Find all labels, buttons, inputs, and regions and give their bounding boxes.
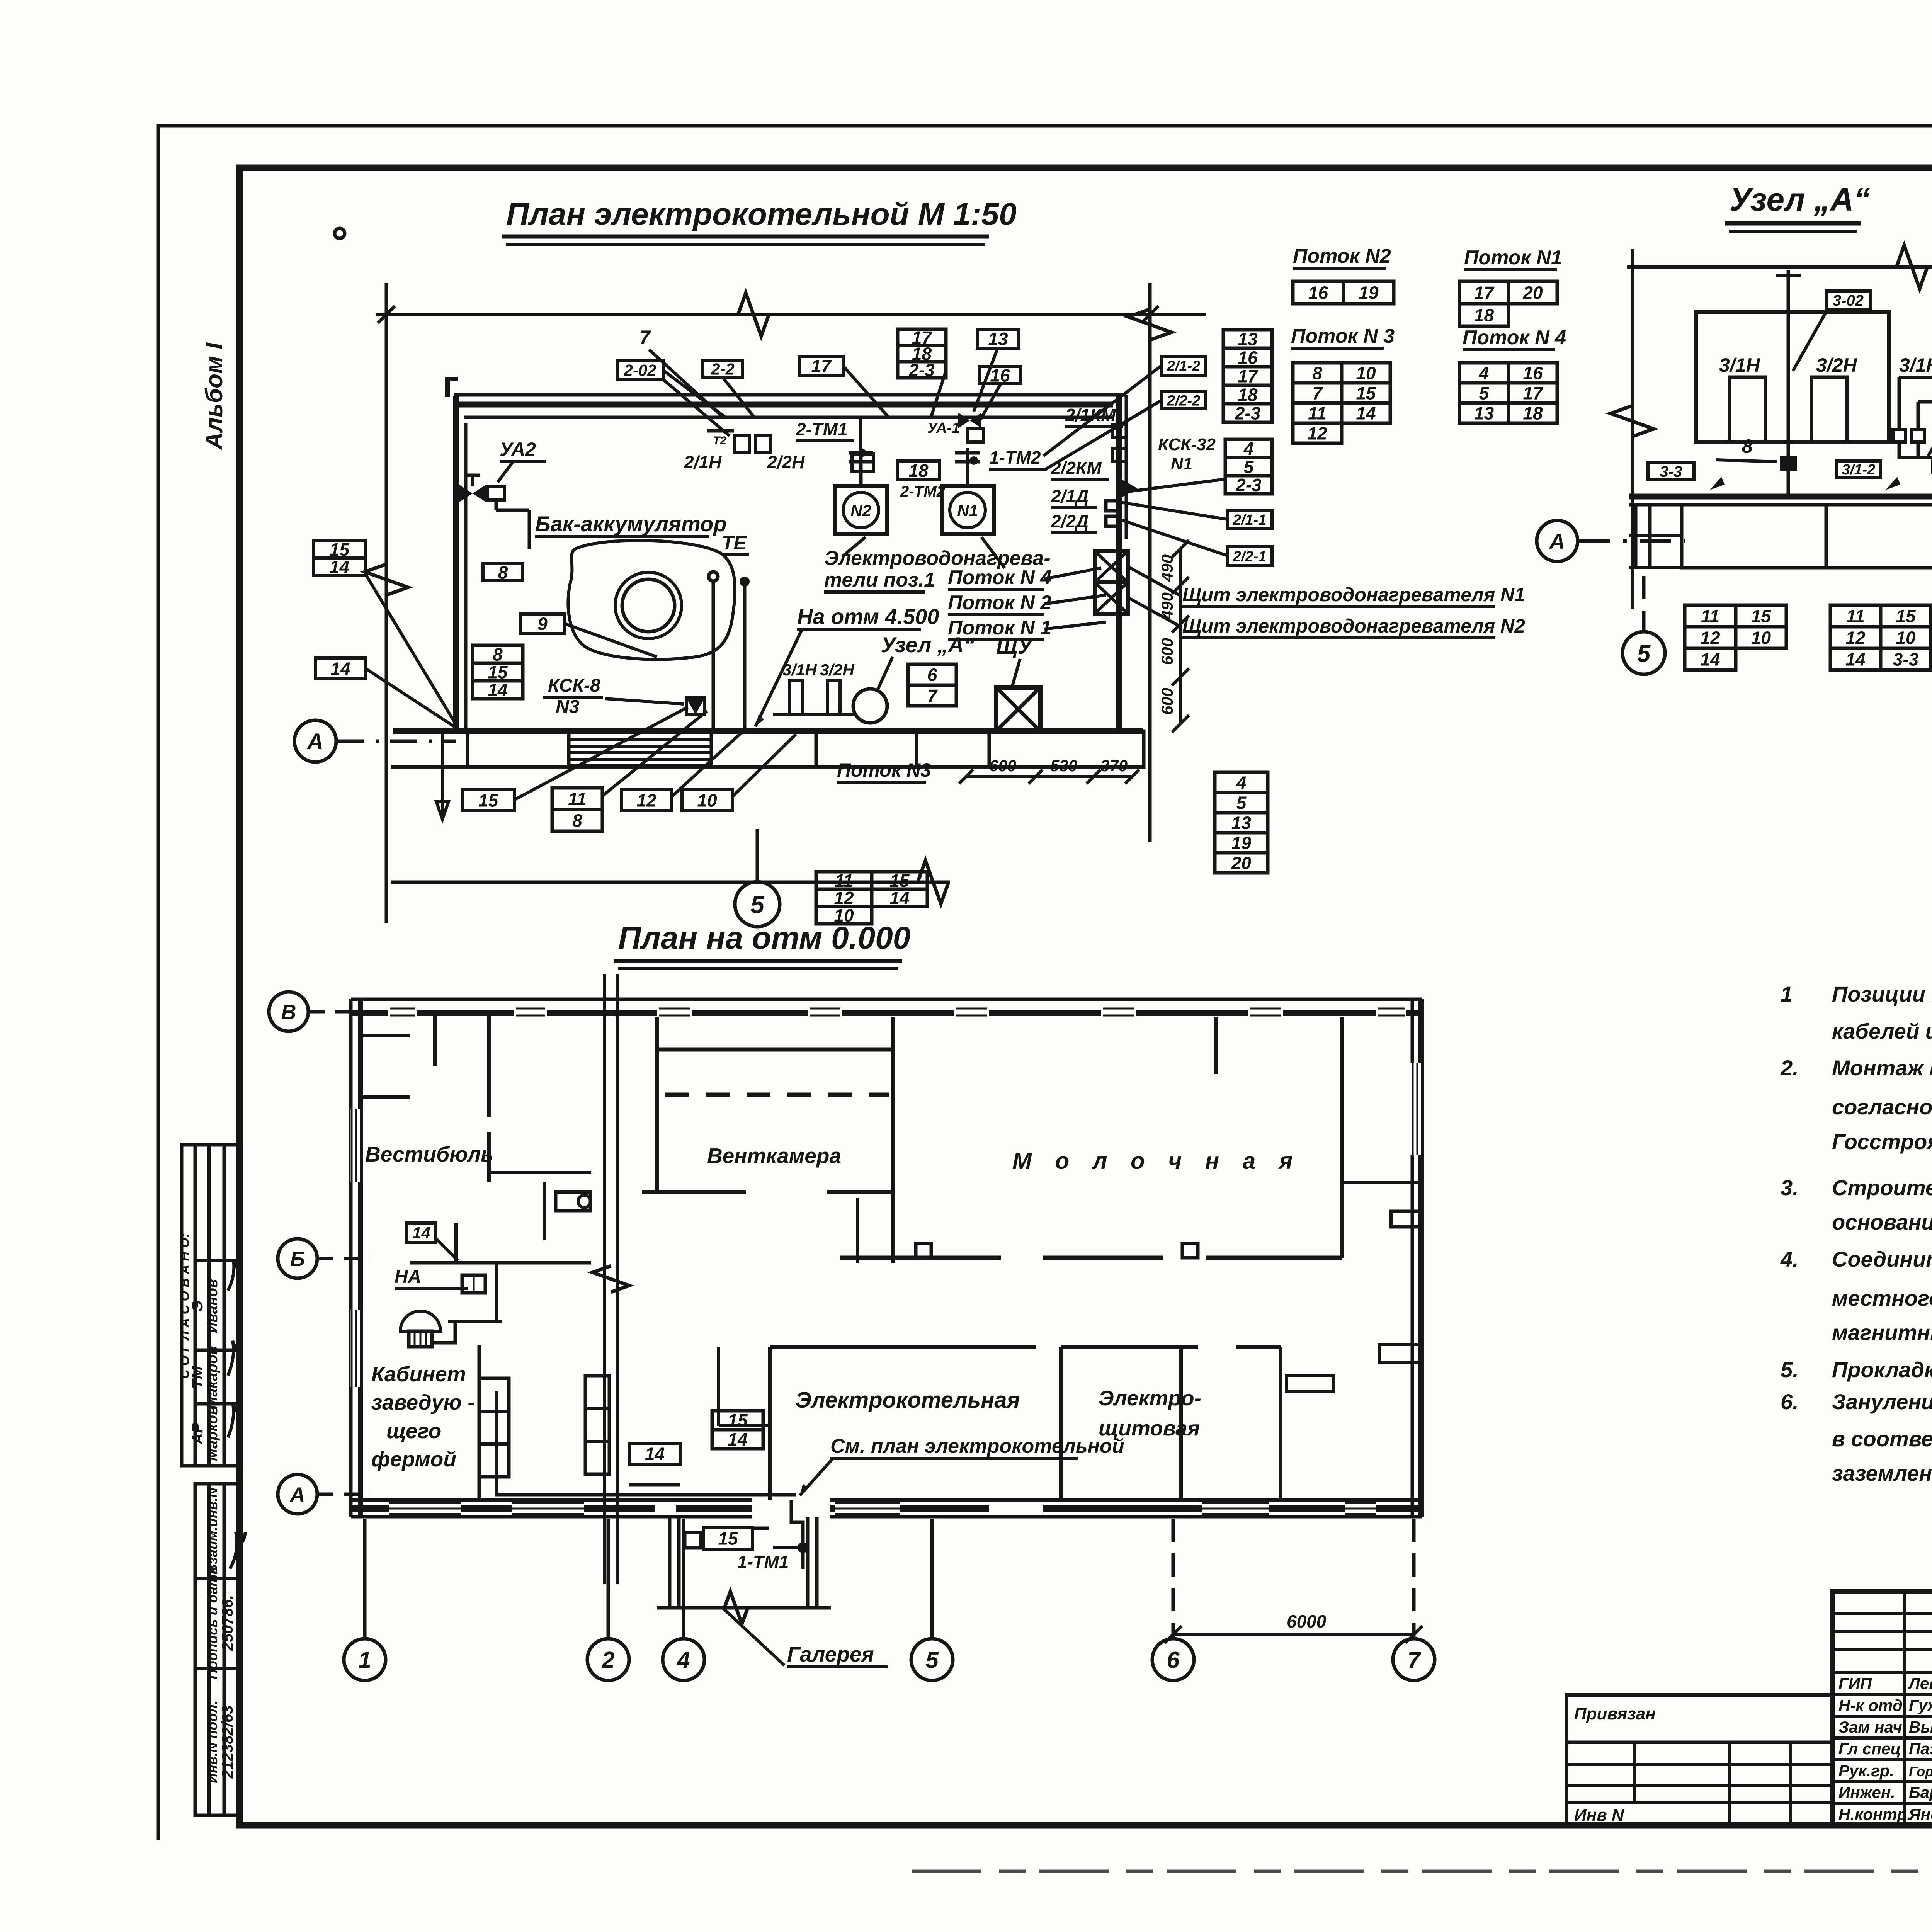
svg-text:18: 18 <box>908 461 929 481</box>
svg-text:Паз: Паз <box>1909 1740 1932 1758</box>
leader 11/8 <box>602 711 707 796</box>
table potok4 <box>1459 363 1557 423</box>
leader heater2 <box>981 537 1005 568</box>
svg-text:УА2: УА2 <box>500 439 536 460</box>
svg-text:Н.контр.: Н.контр. <box>1838 1805 1912 1823</box>
svg-text:Строительная и технологическ: Строительная и технологическая часть вып… <box>1832 1175 1932 1200</box>
svg-text:20: 20 <box>1522 283 1543 303</box>
uzelA table mid <box>1830 605 1931 670</box>
svg-text:2-ТМ1: 2-ТМ1 <box>796 419 847 439</box>
label na otm <box>797 604 939 629</box>
top wall thin <box>351 998 1422 1001</box>
label 2-TM1 <box>796 419 854 441</box>
svg-text:7: 7 <box>1312 383 1323 403</box>
svg-text:Привязан: Привязан <box>1574 1704 1656 1723</box>
header potok4 <box>1463 327 1566 350</box>
svg-text:Поток N 3: Поток N 3 <box>1291 325 1395 347</box>
title uzel A <box>1725 181 1870 231</box>
svg-text:N1: N1 <box>957 502 978 520</box>
svg-text:8: 8 <box>1312 363 1322 383</box>
leader sm plan <box>800 1459 833 1495</box>
svg-text:15: 15 <box>1896 606 1916 626</box>
svg-text:15: 15 <box>1356 383 1376 403</box>
label potok2 <box>948 592 1051 615</box>
leader 17/18 <box>931 371 946 417</box>
svg-text:16: 16 <box>1238 348 1258 368</box>
svg-text:Госстроя СССР.: Госстроя СССР. <box>1832 1129 1932 1154</box>
svg-text:2-02: 2-02 <box>623 361 656 379</box>
svg-text:1-ТМ2: 1-ТМ2 <box>989 447 1041 468</box>
svg-text:3/2Н: 3/2Н <box>1816 354 1857 376</box>
svg-text:18: 18 <box>1523 403 1543 423</box>
svg-text:3/1Н: 3/1Н <box>782 661 817 679</box>
leader 15b <box>514 707 688 800</box>
uzelA 3/1KM <box>1899 354 1932 377</box>
KSK8 symbol <box>686 698 705 714</box>
axis 5 <box>930 1519 934 1638</box>
svg-text:М о л о ч н а я: М о л о ч н а я <box>1012 1148 1301 1174</box>
label 2/2N <box>767 452 805 472</box>
grid circle 6 <box>1152 1639 1194 1680</box>
corridor dividers <box>468 731 711 767</box>
svg-text:16: 16 <box>1308 283 1328 303</box>
TE probe line <box>712 580 715 730</box>
svg-text:Э: Э <box>189 1300 206 1311</box>
svg-text:2-3: 2-3 <box>1235 475 1262 495</box>
label vestibule <box>365 1142 493 1166</box>
table potok2 <box>1293 281 1394 304</box>
left wall thin <box>349 999 353 1517</box>
table 8/15/14 <box>473 645 523 700</box>
box 2-02 <box>617 361 663 379</box>
uzelA floor band <box>1629 505 1932 568</box>
svg-text:Подпись и дата: Подпись и дата <box>204 1566 220 1679</box>
svg-text:А: А <box>1549 529 1565 553</box>
svg-text:17: 17 <box>1523 383 1544 403</box>
leader 8 <box>1716 460 1777 462</box>
box 2/1-1 <box>1227 510 1272 529</box>
bottom dim line <box>391 881 950 884</box>
label KSK32a <box>1158 435 1216 454</box>
svg-text:4: 4 <box>1243 439 1254 459</box>
svg-text:12: 12 <box>1700 628 1720 648</box>
svg-text:4: 4 <box>677 1647 690 1673</box>
svg-text:Поток N 2: Поток N 2 <box>948 592 1051 614</box>
svg-text:Вестибюль: Вестибюль <box>365 1142 493 1166</box>
svg-text:Прокладку электропроводок ос: Прокладку электропроводок осуществить ск… <box>1832 1357 1932 1382</box>
svg-text:АР: АР <box>189 1423 206 1445</box>
stamp table INV <box>195 1484 245 1815</box>
km boxes <box>1113 424 1127 437</box>
svg-text:11: 11 <box>1701 606 1719 626</box>
posts 3/1N 3/2N <box>773 661 855 714</box>
leader 7 <box>649 350 721 415</box>
heater rect 1 <box>1730 377 1765 442</box>
svg-text:14: 14 <box>1700 650 1720 670</box>
km line b <box>1917 402 1920 429</box>
svg-text:согласно строительным нормам: согласно строительным нормам и правилам … <box>1832 1095 1932 1119</box>
svg-text:15: 15 <box>478 791 499 811</box>
uzelA room <box>1696 312 1889 442</box>
grid circle 7 <box>1393 1639 1435 1680</box>
svg-text:2-2: 2-2 <box>711 360 735 378</box>
leader UA2 <box>498 461 514 482</box>
uzelA top line <box>1627 265 1932 269</box>
box 14 plan <box>629 1443 680 1464</box>
grid circle 2 <box>587 1639 629 1680</box>
pipe along left wall <box>464 423 468 730</box>
label 1-TM2 <box>989 447 1047 469</box>
top wall outer line <box>454 393 1126 397</box>
tank bak-akkumulator <box>568 540 735 659</box>
svg-text:7: 7 <box>927 686 938 706</box>
box 18 <box>898 461 939 481</box>
svg-text:14: 14 <box>889 888 909 908</box>
label kabinet3 <box>386 1419 441 1443</box>
label heaters 2 <box>824 569 935 592</box>
svg-text:15: 15 <box>1751 606 1772 626</box>
svg-text:14: 14 <box>728 1429 747 1449</box>
leader shield2 <box>1129 598 1179 626</box>
svg-text:3/1-2: 3/1-2 <box>1842 462 1876 478</box>
leader ksk8 <box>605 699 684 704</box>
leader a <box>663 379 730 436</box>
label 2/1N <box>684 452 722 472</box>
svg-text:На отм 4.500: На отм 4.500 <box>797 604 939 629</box>
svg-text:Электрокотельная: Электрокотельная <box>795 1388 1020 1413</box>
leader heater <box>842 537 866 556</box>
leader na otm <box>755 630 802 726</box>
label kabinet2 <box>371 1390 475 1414</box>
leader 14B <box>436 1238 458 1260</box>
svg-text:5: 5 <box>1244 457 1254 477</box>
label shield1 <box>1182 584 1525 607</box>
svg-text:14: 14 <box>412 1224 430 1242</box>
manifold valve <box>1931 459 1932 474</box>
svg-text:4: 4 <box>1479 363 1489 383</box>
grid circle B <box>278 1239 317 1278</box>
vestibule interior <box>410 1132 770 1500</box>
dims 600 530 370 <box>959 757 1139 784</box>
svg-text:Галерея: Галерея <box>787 1642 874 1666</box>
svg-text:17: 17 <box>1474 283 1495 303</box>
leader shield1 <box>1129 567 1179 595</box>
label potok3 plan <box>837 759 931 782</box>
grid circle A <box>294 720 336 762</box>
hood symbol <box>400 1311 455 1347</box>
svg-text:8: 8 <box>572 811 582 831</box>
grid circle 5 top plan <box>735 882 780 927</box>
small jb a <box>1893 429 1906 442</box>
table potok3 <box>1293 363 1390 444</box>
svg-text:19: 19 <box>1231 833 1252 853</box>
box 17 <box>799 356 843 376</box>
label 2/2KM <box>1051 458 1109 480</box>
svg-text:212382/63: 212382/63 <box>219 1705 236 1779</box>
svg-text:Т2: Т2 <box>713 434 726 447</box>
uzelA label 8 <box>1742 435 1753 457</box>
ShchU box <box>996 687 1040 731</box>
bottom wall <box>393 728 1143 734</box>
svg-text:3-02: 3-02 <box>1833 292 1864 309</box>
left wall <box>453 396 459 731</box>
svg-text:НА: НА <box>395 1267 421 1287</box>
svg-text:заведую -: заведую - <box>371 1390 475 1414</box>
leader b <box>843 366 889 417</box>
box 3/1-2 <box>1837 461 1881 478</box>
tm1 device <box>852 418 874 472</box>
box 15 left <box>313 539 366 560</box>
svg-text:Н-к отд: Н-к отд <box>1838 1696 1903 1714</box>
svg-text:6: 6 <box>1167 1647 1180 1673</box>
svg-text:2: 2 <box>601 1647 614 1673</box>
svg-text:2-ТМ2: 2-ТМ2 <box>900 483 945 500</box>
header potok1 <box>1464 247 1562 270</box>
svg-text:12: 12 <box>636 791 656 811</box>
top wall inner thick <box>454 402 1113 408</box>
right wall outer <box>1125 395 1128 539</box>
notes block <box>1780 982 1932 1485</box>
svg-text:Поток N2: Поток N2 <box>1293 245 1391 267</box>
leader p2 <box>1044 595 1106 604</box>
svg-text:250786.: 250786. <box>219 1595 236 1651</box>
label kabinet4 <box>371 1447 456 1471</box>
leader 12 <box>672 732 742 797</box>
label NA <box>395 1267 468 1288</box>
label sm plan <box>830 1435 1124 1458</box>
svg-text:13: 13 <box>1238 329 1258 349</box>
svg-text:10: 10 <box>1356 363 1376 383</box>
cable run <box>497 1391 803 1569</box>
km line c <box>1918 400 1932 404</box>
leader to circle 5 <box>756 829 759 881</box>
stack 13..2-3 <box>1223 329 1272 423</box>
dim chain 490/600 <box>1158 540 1189 732</box>
svg-text:2-3: 2-3 <box>1235 403 1261 423</box>
axis A dash <box>337 740 456 743</box>
svg-text:16: 16 <box>990 366 1010 386</box>
section line a <box>603 974 606 1584</box>
svg-text:Взаим.инв.N: Взаим.инв.N <box>204 1487 220 1574</box>
grid circle 5 <box>911 1639 953 1680</box>
svg-text:Монтаж приборов и средств: Монтаж приборов и средств автоматизации … <box>1832 1056 1932 1080</box>
svg-text:тели поз.1: тели поз.1 <box>824 569 935 591</box>
svg-text:5: 5 <box>925 1647 939 1673</box>
svg-text:490: 490 <box>1158 592 1176 620</box>
svg-text:5: 5 <box>1479 383 1490 403</box>
svg-text:13: 13 <box>988 329 1008 349</box>
heater N1 <box>942 448 994 534</box>
svg-text:17: 17 <box>1238 366 1259 386</box>
svg-text:Узел „А“: Узел „А“ <box>881 633 975 657</box>
axis B <box>318 1257 371 1260</box>
box 3-02 <box>1826 291 1870 309</box>
box 14 left <box>313 557 366 577</box>
svg-text:ЩУ: ЩУ <box>996 634 1034 658</box>
box 15 bottom <box>462 790 514 811</box>
leader p1 <box>1044 622 1106 629</box>
uzelA circle 5 <box>1622 632 1665 674</box>
svg-text:ТМ: ТМ <box>189 1366 206 1389</box>
svg-text:9: 9 <box>537 614 548 634</box>
svg-text:Гужва: Гужва <box>1909 1696 1932 1714</box>
gallery <box>657 1517 831 1608</box>
svg-text:ГИП: ГИП <box>1838 1674 1872 1692</box>
down arrow <box>436 731 449 819</box>
svg-text:14: 14 <box>488 680 507 700</box>
dimline <box>1179 549 1182 724</box>
svg-text:20: 20 <box>1231 853 1252 873</box>
svg-text:Зануление приборов и средст: Зануление приборов и средств автоматизац… <box>1832 1389 1932 1414</box>
section line b <box>616 974 619 1584</box>
svg-text:Венткамера: Венткамера <box>707 1144 841 1168</box>
uzelA floor thick <box>1629 494 1932 500</box>
header potok3 <box>1291 325 1395 348</box>
box 2/2-2 <box>1162 392 1206 409</box>
svg-text:3/2Н: 3/2Н <box>820 661 855 679</box>
bottom wall <box>351 1500 1422 1517</box>
probe line 2 <box>743 584 747 730</box>
leader 9 <box>565 624 657 657</box>
svg-text:2/2-2: 2/2-2 <box>1167 393 1201 409</box>
label KSK8b <box>556 697 580 717</box>
uzelA left line <box>1631 249 1634 609</box>
svg-text:магнитные пускатели на отм.: магнитные пускатели на отм. 1,5м <box>1832 1320 1932 1345</box>
label 2/1KM <box>1065 405 1123 427</box>
svg-text:щего: щего <box>386 1419 441 1443</box>
svg-text:17: 17 <box>811 356 832 376</box>
box 2/1-2 <box>1162 356 1206 375</box>
leader circle5 <box>1642 576 1646 631</box>
svg-text:1: 1 <box>1781 982 1793 1006</box>
right corridor box <box>989 731 1144 767</box>
stamp table SOGLASOVANO <box>177 1145 241 1466</box>
leader 15/14 <box>366 574 456 724</box>
leader galereya <box>723 1608 784 1665</box>
right grid line <box>1148 283 1152 842</box>
label KSK8 <box>548 675 600 696</box>
svg-text:Кабинет: Кабинет <box>371 1362 466 1386</box>
uzelA table left <box>1685 605 1786 670</box>
label elektrokotelnaya <box>795 1388 1020 1413</box>
svg-text:5: 5 <box>750 891 765 918</box>
left wall stub top <box>445 377 458 381</box>
svg-text:600: 600 <box>1158 688 1176 715</box>
label UA2 <box>500 439 546 461</box>
leader 3-02 <box>1793 309 1828 371</box>
svg-text:3/1КМ: 3/1КМ <box>1899 354 1932 376</box>
svg-text:4.: 4. <box>1780 1247 1799 1271</box>
box 14 left2 <box>315 658 366 679</box>
right wall thick <box>1418 999 1424 1517</box>
label 1-TM1 <box>737 1552 789 1572</box>
label ventkamera <box>707 1144 841 1168</box>
inner frame <box>240 168 1932 1825</box>
valve UA-1 <box>958 413 983 442</box>
svg-text:Поток N1: Поток N1 <box>1464 247 1562 269</box>
uzelA 3/2N <box>1816 354 1857 376</box>
molochnaya walls <box>840 1017 1421 1258</box>
leader h <box>1121 502 1227 519</box>
label kabinet1 <box>371 1362 466 1386</box>
svg-text:14: 14 <box>1356 403 1376 423</box>
table 17/18/2-3 <box>898 328 946 380</box>
table 15/14 plan <box>712 1410 763 1449</box>
label 2-TM2 <box>900 483 945 500</box>
leader 10 <box>732 734 796 797</box>
svg-text:Инв N: Инв N <box>1574 1806 1624 1825</box>
box 2-2 <box>703 360 743 378</box>
left wall thick <box>358 999 363 1517</box>
svg-text:А: А <box>306 729 323 754</box>
svg-text:2/2-1: 2/2-1 <box>1233 549 1267 565</box>
svg-text:Альбом I: Альбом I <box>201 342 228 451</box>
svg-text:12: 12 <box>1845 628 1866 648</box>
svg-text:8: 8 <box>498 563 508 583</box>
label shield2 <box>1182 615 1525 638</box>
axis V <box>309 1010 350 1014</box>
svg-text:Щит электроводонагревателя N1: Щит электроводонагревателя N1 <box>1182 584 1525 605</box>
svg-text:18: 18 <box>1474 305 1494 325</box>
label heaters 1 <box>824 547 1051 570</box>
svg-text:14: 14 <box>1845 650 1865 670</box>
svg-text:4: 4 <box>1236 773 1247 793</box>
grid circle 1 <box>344 1639 386 1680</box>
svg-text:Зам нач: Зам нач <box>1838 1718 1902 1736</box>
svg-text:N3: N3 <box>556 697 580 717</box>
svg-text:2/2Д: 2/2Д <box>1051 511 1088 531</box>
svg-text:2/1Д: 2/1Д <box>1051 486 1088 506</box>
smudge line bottom <box>912 1870 1932 1873</box>
label 7 <box>639 327 651 348</box>
right wall thin <box>1411 999 1414 1517</box>
km line a <box>1898 377 1901 429</box>
svg-text:Инжен.: Инжен. <box>1838 1783 1895 1801</box>
svg-text:2/1-1: 2/1-1 <box>1233 512 1267 528</box>
svg-text:3-3: 3-3 <box>1893 650 1919 670</box>
svg-text:3-3: 3-3 <box>1660 463 1682 480</box>
corridor lower line <box>391 765 1144 769</box>
stray mark o <box>335 228 345 238</box>
svg-text:6.: 6. <box>1781 1389 1799 1414</box>
svg-text:12: 12 <box>1307 423 1327 444</box>
venkamera walls <box>642 1017 893 1263</box>
svg-text:Макаров: Макаров <box>204 1346 221 1409</box>
svg-text:Щит электроводонагревателя N2: Щит электроводонагревателя N2 <box>1182 615 1525 637</box>
uzelA axis dash <box>1579 539 1685 543</box>
svg-text:8: 8 <box>1742 435 1753 457</box>
shield box 1 <box>1095 551 1128 582</box>
box 10 <box>682 790 732 811</box>
wall stub V <box>361 1016 489 1117</box>
label elektro <box>1099 1386 1201 1410</box>
svg-text:КСК-8: КСК-8 <box>548 675 600 696</box>
svg-text:6000: 6000 <box>1287 1611 1327 1631</box>
svg-text:18: 18 <box>1238 385 1258 405</box>
axis 7 <box>1412 1519 1416 1638</box>
label potok1 <box>948 617 1051 640</box>
axis A2 <box>318 1493 371 1496</box>
leader 14 <box>366 668 454 726</box>
box 16 <box>979 366 1021 386</box>
svg-text:14: 14 <box>645 1444 665 1464</box>
svg-text:11: 11 <box>568 789 587 809</box>
leader c <box>974 348 998 412</box>
svg-text:Яндиндер: Яндиндер <box>1908 1805 1932 1823</box>
svg-text:Гл спец: Гл спец <box>1838 1740 1901 1758</box>
stack 4/5/13/19/20 <box>1215 772 1268 873</box>
table 11/8 <box>552 788 602 831</box>
